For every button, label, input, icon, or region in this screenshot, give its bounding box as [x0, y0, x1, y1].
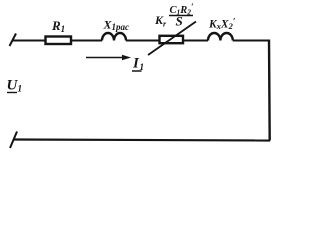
wire: [233, 40, 269, 42]
current arrow I1: [86, 55, 144, 73]
inductor X1pac: [102, 18, 129, 41]
svg-text:S: S: [176, 14, 183, 29]
bottom-left terminal: [10, 132, 17, 149]
resistor R1: [46, 18, 72, 44]
wire: [12, 40, 45, 42]
svg-text:Kr: Kr: [154, 13, 167, 29]
top-left terminal: [10, 34, 17, 47]
wire: [183, 40, 208, 42]
inductor KxX2': [208, 17, 236, 41]
svg-text:KxX2′: KxX2′: [208, 17, 236, 32]
wire (right vertical): [268, 40, 271, 141]
wire: [126, 40, 159, 42]
wire (bottom): [14, 140, 271, 141]
svg-text:X1рас: X1рас: [103, 18, 130, 33]
voltage label U1: [7, 78, 23, 95]
variable resistor Kr C1R2'/S: [148, 2, 196, 55]
svg-text:R1: R1: [51, 18, 65, 34]
wire: [72, 40, 102, 42]
